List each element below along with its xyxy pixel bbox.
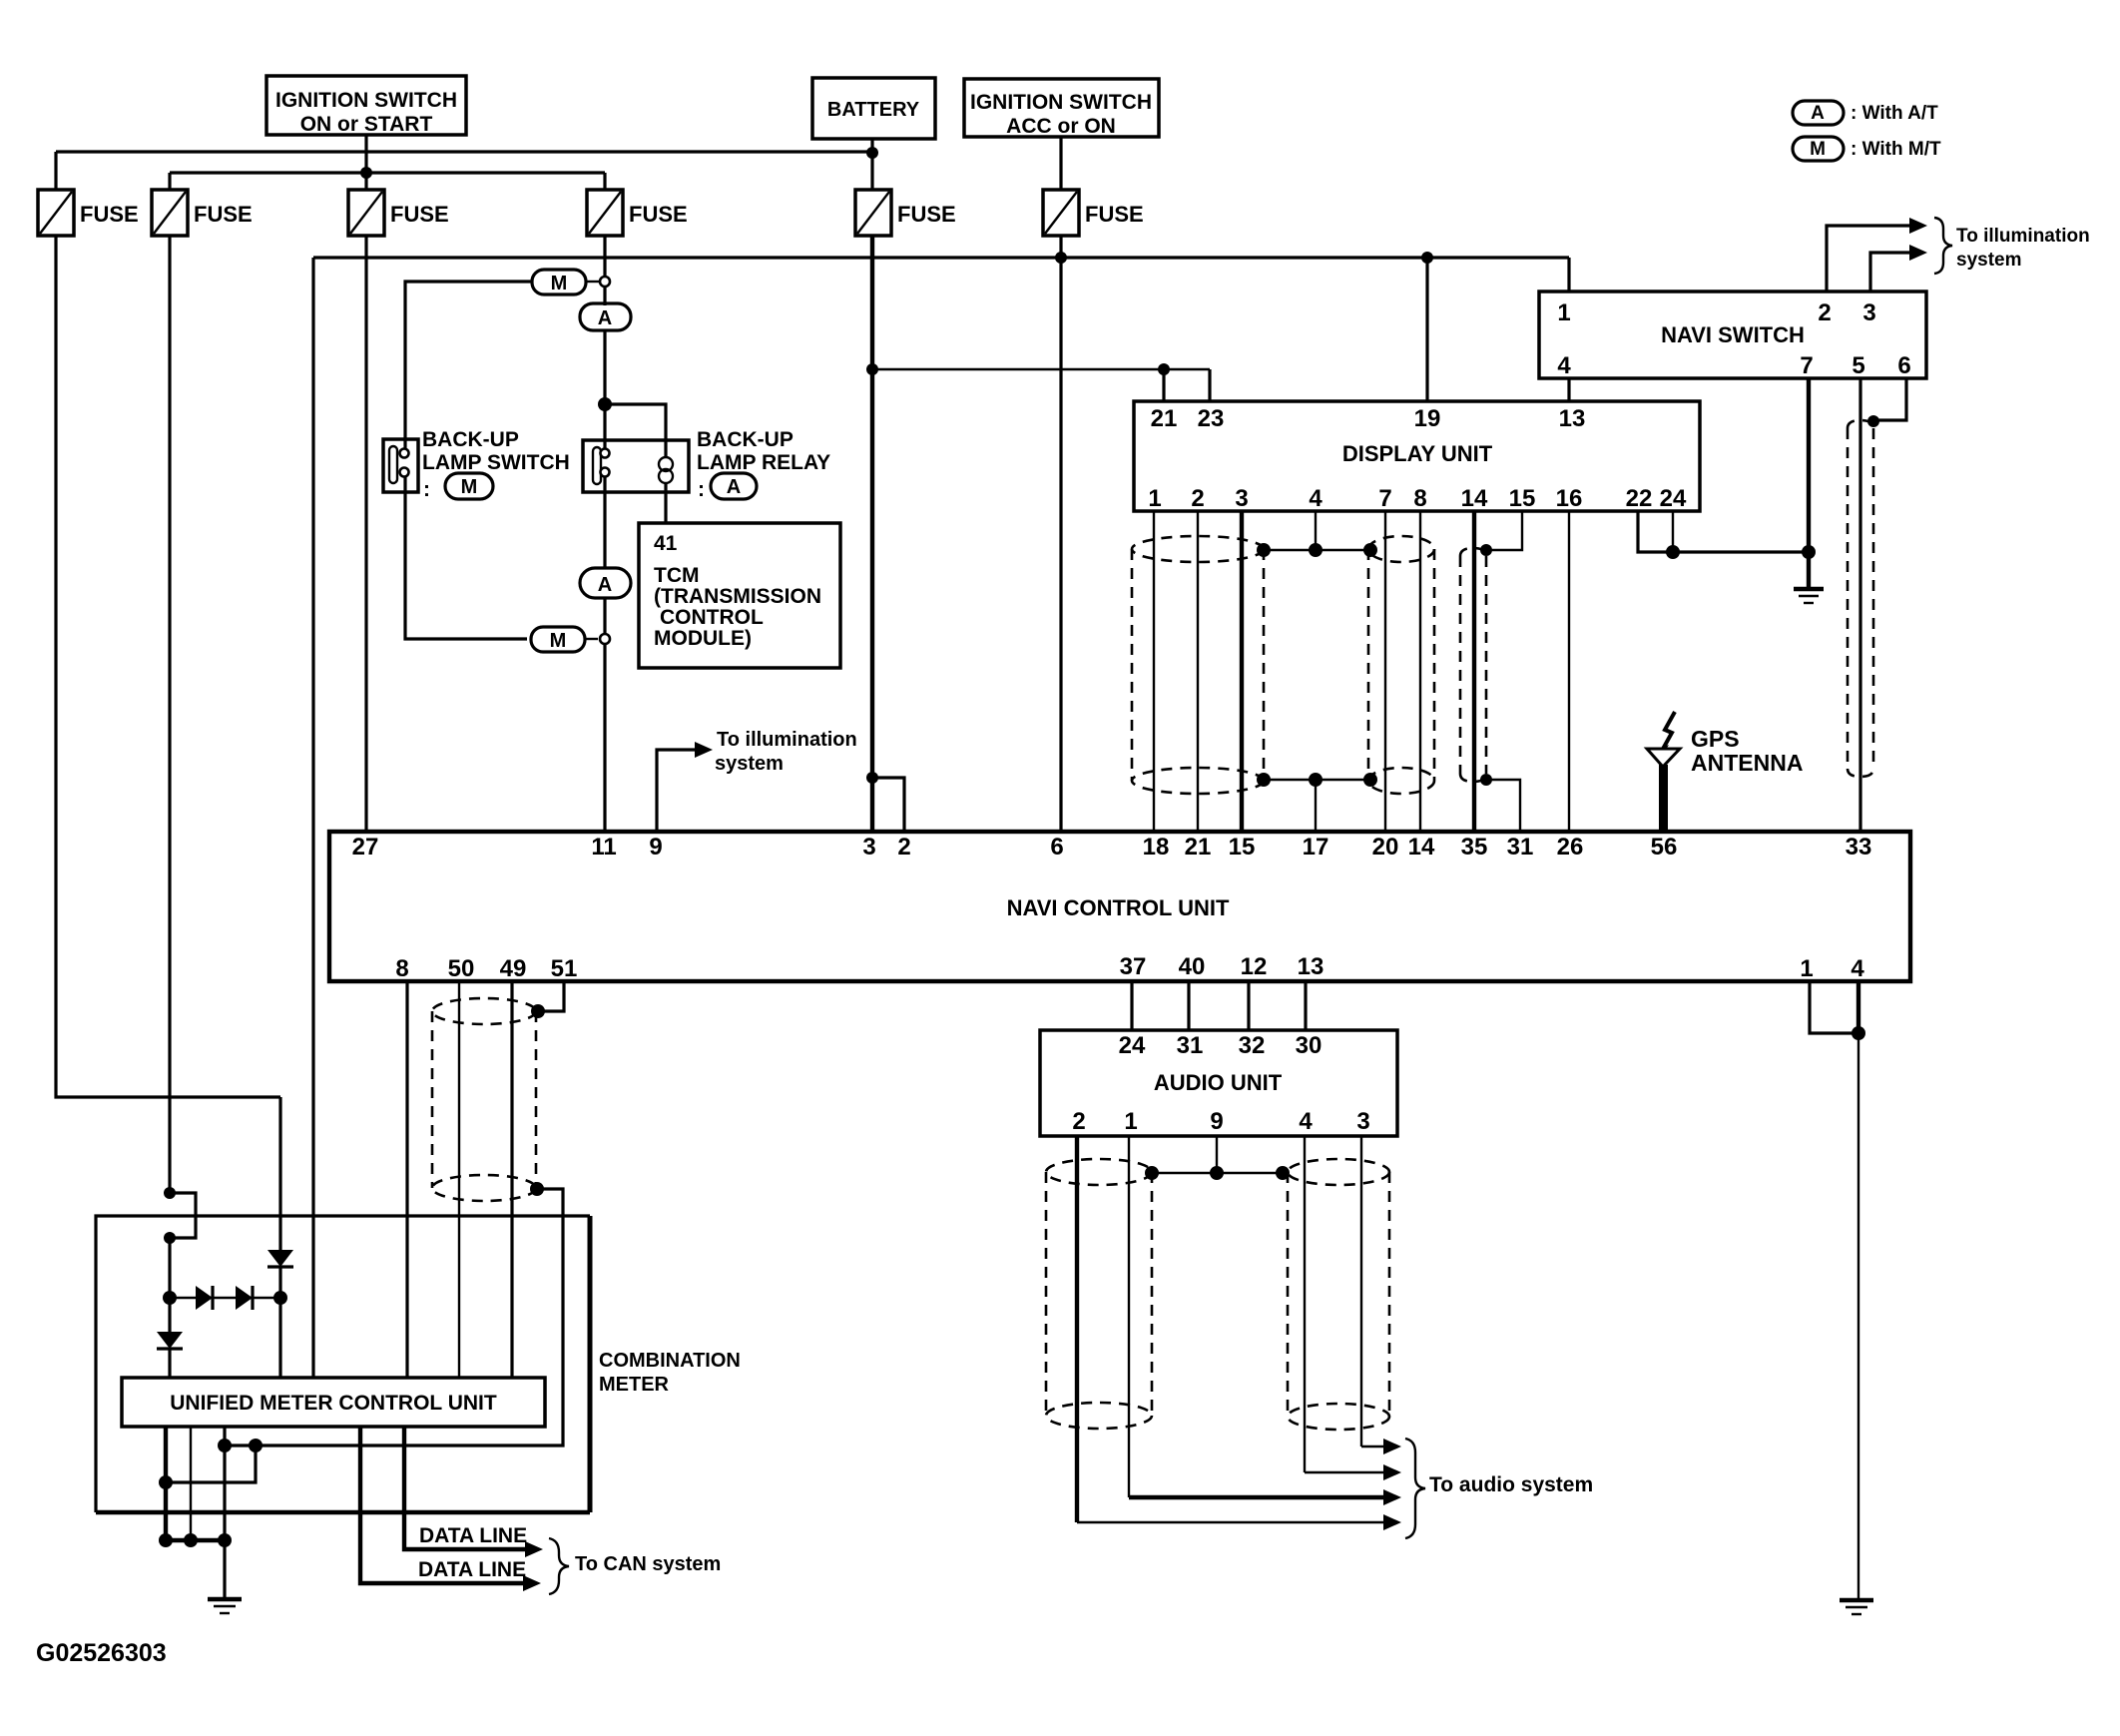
back-up lamp switch [383,439,418,492]
ground symbol bottom left [208,1599,242,1613]
wire: display1 to navi18 [1153,511,1155,831]
wire: x=170 diode to unified box [168,1349,171,1378]
brace to illumination [1934,218,1952,274]
display unit top pin labels 21 23 19 13 [1151,405,1586,432]
wire: ACC fuse6 output down to navi pin 6 [1059,236,1062,831]
svg-text:15: 15 [1229,834,1256,861]
oval tag M (top) [532,270,599,294]
svg-text:27: 27 [352,834,379,861]
svg-text:FUSE: FUSE [390,202,449,227]
svg-text:2: 2 [1191,485,1204,512]
svg-text:49: 49 [500,955,527,982]
wire: display7 to navi20 [1384,511,1386,831]
svg-text:37: 37 [1120,953,1147,980]
shield around navi switch pin5 wire [1848,420,1873,777]
arrow audio3 [1383,1489,1401,1505]
svg-text:system: system [715,753,784,775]
fuse F6 [1043,190,1144,236]
wire: x=281 diode to unified box [278,1267,281,1378]
svg-text:19: 19 [1414,405,1441,432]
wire: display4 to shield drain top [1315,511,1317,550]
junction dot staple bottom [164,1232,176,1244]
wire: accessory bus left drop x=313 [311,258,314,1378]
wire: navi switch pin 3 to illumination [1870,253,1913,291]
svg-text:13: 13 [1298,953,1325,980]
display unit bottom pin labels 1 2 3 4 7 8 14 15 16 22 24 [1148,485,1687,512]
junction dot ignition bus [360,167,372,179]
svg-text:26: 26 [1557,834,1584,861]
label combination meter [599,1350,741,1396]
arrow audio2 [1383,1464,1401,1480]
wire: unified ground pin x=191 [190,1427,192,1540]
svg-text:6: 6 [1050,834,1063,861]
legend A = With A/T [1793,101,1938,125]
svg-text:31: 31 [1177,1032,1204,1059]
fuse F1 [38,190,139,236]
svg-text:40: 40 [1179,953,1206,980]
svg-text:FUSE: FUSE [629,202,688,227]
svg-text:7: 7 [1800,352,1813,379]
svg-text:To illumination: To illumination [717,729,857,751]
wire: fuse6 riser (ACC) [1059,137,1062,190]
oval tag A (top) [580,303,631,330]
svg-text:3: 3 [1235,485,1248,512]
wire: navi51 to shield drain [544,981,564,1011]
svg-text:15: 15 [1509,485,1536,512]
wire: navi switch pin 5 shielded to navi pin 33 [1858,378,1861,831]
wire: display14 to navi35 [1472,511,1476,831]
back-up lamp switch label [422,428,570,501]
wire: staple jog at meter edge [170,1193,196,1238]
wire: fuse5 riser [870,152,873,190]
svg-text:BACK-UP: BACK-UP [422,428,519,451]
wire: display22/24 ground lead [1638,511,1808,552]
wire: unified data line pin x=405 [404,1427,529,1549]
junction dot ground jog [249,1439,263,1452]
arrow to illumination (middle) [695,742,713,758]
wire: unified data line pin x=361 [360,1427,527,1583]
svg-text:NAVI CONTROL UNIT: NAVI CONTROL UNIT [1007,895,1230,920]
wire: display3 to navi15 [1240,511,1244,831]
junction dot relay branch [598,397,612,411]
wire: audio3 to audio system [1361,1446,1387,1447]
wire: switch output down [405,476,527,639]
svg-text:11: 11 [591,834,616,861]
wire: M/T branch from M tag to back-up lamp switch [405,282,532,448]
wire: navi pin 9 to illumination arrow [657,750,699,831]
wire: fuse4 down to relay junction [603,330,606,448]
wire: navi13 to audio30 [1304,981,1307,1030]
wire: drop to display pin 23 [1208,369,1211,401]
svg-text:To audio system: To audio system [1429,1473,1593,1496]
diode chain horizontal wire [170,1297,280,1299]
arrow illumination lower [1909,245,1927,261]
svg-text:2: 2 [897,834,910,861]
arrow illumination upper [1909,218,1927,234]
label to illumination system (top right) [1956,226,2090,271]
TCM box [639,523,840,668]
svg-text:To CAN system: To CAN system [575,1553,721,1575]
svg-text:3: 3 [1862,299,1875,326]
wire: navi switch pin 7 to ground [1807,378,1811,588]
junction dot navi pin2 branch [866,772,878,784]
svg-text:51: 51 [551,955,578,982]
svg-text:1: 1 [1557,299,1570,326]
wire: branch to display pins 21/23 [872,368,1210,370]
svg-text:GPS: GPS [1691,726,1740,752]
svg-text:4: 4 [1299,1108,1313,1135]
wire: ignition ON feed bus y=173 [170,171,605,174]
wire: accessory bus y=258 [313,256,1569,259]
svg-text:DISPLAY UNIT: DISPLAY UNIT [1342,441,1493,466]
wire: navi switch pin 6 to shield [1878,378,1906,420]
svg-text:21: 21 [1151,405,1178,432]
svg-text:5: 5 [1852,352,1864,379]
svg-text:: With A/T: : With A/T [1851,103,1938,124]
svg-text:LAMP SWITCH: LAMP SWITCH [422,451,570,474]
svg-text:FUSE: FUSE [80,202,139,227]
wire: fuse2 output drop [168,236,171,1193]
svg-text:6: 6 [1897,352,1910,379]
arrow audio4 [1383,1514,1401,1530]
wire: navi4 to ground (right) [1856,981,1860,1033]
junction dot display feed [866,363,878,375]
svg-text:3: 3 [862,834,875,861]
wire: battery feed bus y=152 [56,150,872,153]
wire: navi switch pin 2 to illumination [1827,226,1913,291]
svg-text:24: 24 [1660,485,1687,512]
svg-text:DATA LINE: DATA LINE [419,1524,527,1547]
svg-text:To illumination: To illumination [1956,226,2090,247]
junction dot display24 [1666,545,1680,559]
svg-text:23: 23 [1198,405,1225,432]
wire: fuse4 between M terminal and A tag [603,287,606,305]
svg-text:56: 56 [1651,834,1678,861]
shield2 around display wires 7-8 [1368,536,1434,794]
svg-text:12: 12 [1241,953,1268,980]
svg-text:4: 4 [1557,352,1571,379]
svg-text:4: 4 [1851,955,1864,982]
svg-text:4: 4 [1309,485,1323,512]
ignition switch ACC/ON box [964,79,1159,138]
shield6 around audio 4/3 wires [1288,1159,1389,1430]
svg-text:14: 14 [1408,834,1435,861]
svg-text:ANTENNA: ANTENNA [1691,750,1803,776]
svg-text:: With M/T: : With M/T [1851,139,1941,160]
arrow data line 2 [523,1575,541,1591]
wire: navi37 to audio24 [1130,981,1133,1030]
svg-text:A: A [598,307,612,329]
wire: fuse4 output upper [603,236,606,277]
navi control bottom pin labels 8 50 49 51 37 40 12 13 1 4 [395,953,1864,982]
junction dot shield0 bottom [530,1182,544,1196]
svg-text:NAVI SWITCH: NAVI SWITCH [1661,322,1805,347]
svg-text:3: 3 [1356,1108,1369,1135]
svg-text:20: 20 [1372,834,1399,861]
svg-text:METER: METER [599,1374,670,1396]
svg-text:AUDIO UNIT: AUDIO UNIT [1154,1070,1283,1095]
svg-text:M: M [1810,139,1826,160]
diode D3 (right) [196,1286,213,1310]
junction dot ground jog left [159,1475,173,1489]
wire: audio1 to audio system [1129,1495,1387,1499]
navi control top pin labels 27 11 9 3 2 6 18 21 15 17 20 14 35 31 26 56 33 [352,834,1872,861]
svg-text:1: 1 [1148,485,1161,512]
svg-text:9: 9 [1210,1108,1223,1135]
svg-text:1: 1 [1124,1108,1137,1135]
svg-text:31: 31 [1507,834,1534,861]
wire: fuse3 riser [364,173,367,190]
wire: shield0 drain to meter ground [225,1189,563,1446]
junction dot shield4 top [1867,415,1879,427]
wire: relay coil to TCM pin 41 [664,483,667,523]
svg-text:1: 1 [1800,955,1813,982]
wire: unified ground pin x=166 [164,1427,168,1540]
fuse F2 [152,190,253,236]
junction dots drain bottom [1257,773,1271,787]
unified meter control unit box [122,1378,545,1427]
wire: accessory bus to navi switch pin 1 [1567,258,1570,291]
M/T connector open terminal [600,277,610,287]
label GPS ANTENNA [1691,726,1803,776]
wire: navi switch pin 4 to display pin 13 [1567,378,1570,401]
wire: shield drain bottom link [1264,779,1368,781]
navi control unit box [329,832,1910,981]
svg-text:9: 9 [649,834,662,861]
wire: display16 to navi26 [1568,511,1570,831]
svg-text:2: 2 [1072,1108,1085,1135]
fuse F3 [348,190,449,236]
wire: audio1 down [1128,1136,1130,1497]
wire: fuse1 riser [54,152,57,190]
wire: fuse3 output to navi pin 27 [364,236,367,831]
junction dot ACC on accessory bus [1055,252,1067,264]
shield3 around display wire 14 [1460,548,1486,782]
svg-text:ON or START: ON or START [300,113,433,136]
svg-text:2: 2 [1818,299,1831,326]
arrow audio1 [1383,1439,1401,1454]
svg-text::: : [423,478,430,501]
arrow data line 1 [525,1541,543,1557]
wire: ground bus y=1543 [166,1538,225,1542]
wire: audio3 down [1360,1136,1362,1447]
wire: down right side to ground [1857,1033,1859,1598]
junction dot fuse2/staple top [164,1187,176,1199]
svg-text:M: M [550,630,567,652]
junction dots audio drain [1145,1166,1159,1180]
svg-text:M: M [461,476,478,498]
wire: fuse2 riser [168,173,171,190]
wire: audio9 to shield drains [1216,1136,1218,1173]
svg-text:UNIFIED METER CONTROL UNIT: UNIFIED METER CONTROL UNIT [170,1392,497,1415]
wire: navi50 to unified meter [458,981,460,1378]
svg-text:M: M [551,273,568,294]
wire: shield3 bottom to navi31 [1486,780,1520,831]
svg-text:FUSE: FUSE [194,202,253,227]
wire: display8 to navi14 [1419,511,1421,831]
ignition switch ON/START box [266,76,466,136]
junction dot navi1/4 [1852,1026,1865,1040]
svg-text:MODULE): MODULE) [654,627,752,650]
wire: fuse4 riser [603,173,606,190]
junction dot accessory bus display19 [1421,252,1433,264]
audio unit top pin labels 24 31 32 30 [1119,1032,1323,1059]
svg-text:FUSE: FUSE [1085,202,1144,227]
wire: shield drain top link [1264,549,1368,551]
wire: audio shield drain link [1152,1172,1283,1174]
wire: fuse2 drop below staple [168,1238,171,1332]
navi switch box [1539,291,1926,378]
svg-text:system: system [1956,250,2022,271]
wire: navi49 to unified meter [510,981,513,1378]
junction dot battery bus [866,147,878,159]
wire: audio4 to audio system [1305,1471,1387,1473]
svg-text:TCM: TCM [654,564,700,587]
shield1 around display wires 1-3 [1132,536,1264,794]
svg-text:IGNITION SWITCH: IGNITION SWITCH [275,89,457,112]
wire: navi8 to unified meter [405,981,408,1378]
svg-text:13: 13 [1559,405,1586,432]
svg-text:14: 14 [1461,485,1488,512]
GPS antenna [1647,712,1680,831]
junction dot shield ground [1802,545,1816,559]
battery box [812,78,935,139]
wire: drop to display pin 19 [1425,258,1428,401]
oval tag M (lower) [531,627,598,652]
wire: display2 to navi21 [1197,511,1199,831]
junction dot ground link top [218,1439,232,1452]
junction dot shield0 top [531,1004,545,1018]
wire: fuse1 output long left drop [56,236,280,1097]
combination meter box [96,1216,590,1512]
ground symbol below navi switch pin 7 [1794,589,1824,603]
svg-text:8: 8 [395,955,408,982]
M/T lower open terminal [600,634,610,644]
oval tag A (lower) [580,568,631,598]
junction dot x=281 diode chain [273,1291,287,1305]
junction dot display 21 branch [1158,363,1170,375]
svg-text:24: 24 [1119,1032,1146,1059]
legend M = With M/T [1793,137,1941,161]
svg-text:16: 16 [1556,485,1583,512]
wire: navi1 jog [1810,981,1854,1033]
svg-text:30: 30 [1296,1032,1323,1059]
svg-text::: : [698,478,705,501]
wire: audio2 to audio system [1077,1521,1387,1523]
svg-text:G02526303: G02526303 [36,1639,167,1667]
svg-text:21: 21 [1185,834,1212,861]
wire: between lower A tag and lower M terminal [603,598,606,634]
svg-text:IGNITION SWITCH: IGNITION SWITCH [970,91,1152,114]
wire: navi40 to audio31 [1187,981,1190,1030]
svg-text:41: 41 [654,532,678,555]
wire: battery fuse5 output down to navi pin 3 [870,236,874,831]
junction dots ground bus [159,1533,173,1547]
svg-text:FUSE: FUSE [897,202,956,227]
diode D2 (down) on x=170 [157,1332,183,1349]
wire: navi12 to audio32 [1247,981,1250,1030]
wire: jog to navi pin 2 [872,778,904,831]
svg-text:17: 17 [1303,834,1329,861]
ground symbol bottom right [1840,1600,1873,1614]
junction dots shield3 [1480,544,1492,556]
svg-text:35: 35 [1461,834,1488,861]
wire: shield drain to navi17 [1315,780,1317,831]
wire: audio4 down [1304,1136,1306,1472]
svg-text:COMBINATION: COMBINATION [599,1350,741,1372]
svg-text:33: 33 [1846,834,1872,861]
back-up lamp relay [583,440,689,492]
svg-text:50: 50 [448,955,475,982]
wire: ignition switch riser [364,135,367,173]
wire: display15 to shield3 top [1490,511,1522,550]
svg-text:A: A [1811,103,1825,124]
brace to audio system [1405,1439,1425,1538]
wire: down to navi pin 11 [603,644,606,831]
wire: audio2 down [1075,1136,1079,1522]
brace to CAN system [549,1538,569,1594]
wire: display24 drop [1672,511,1674,552]
junction dot x=170 diode chain [163,1291,177,1305]
wire: vertical x=281 to combination meter [278,1097,281,1250]
svg-text:7: 7 [1378,485,1391,512]
junction dots drain top [1257,543,1271,557]
wire: drop to display pin 21 [1162,369,1165,401]
wire: unified ground pin x=225 [223,1427,226,1598]
audio unit box [1040,1030,1397,1136]
diode D4 (right) [236,1286,253,1310]
wire: battery riser [870,139,873,152]
svg-text:CONTROL: CONTROL [660,606,764,629]
shield5 around audio 2/1 wires [1046,1159,1152,1429]
svg-text:(TRANSMISSION: (TRANSMISSION [654,585,821,608]
svg-text:ACC or ON: ACC or ON [1006,115,1116,138]
back-up lamp relay label [697,428,830,501]
display unit box [1134,401,1700,511]
svg-text:18: 18 [1143,834,1170,861]
svg-text:32: 32 [1239,1032,1266,1059]
label to illumination system (middle) [715,729,857,775]
svg-text:22: 22 [1626,485,1653,512]
shield0 around navi 50/49 wires [432,998,536,1201]
fuse F5 [855,190,956,236]
svg-text:BATTERY: BATTERY [827,99,920,121]
svg-text:LAMP RELAY: LAMP RELAY [697,451,830,474]
wire: branch to relay coil [605,404,666,457]
svg-text:BACK-UP: BACK-UP [697,428,794,451]
diode D1 (down) on x=281 [267,1250,293,1267]
svg-text:DATA LINE: DATA LINE [418,1558,526,1581]
fuse F4 [587,190,688,236]
svg-text:A: A [727,476,741,498]
wire: relay contact output down [603,476,606,568]
wire: ground jog to x=166 [166,1446,256,1482]
audio unit bottom pin labels 2 1 9 4 3 [1072,1108,1369,1135]
svg-text:8: 8 [1413,485,1426,512]
navi switch pin labels 1 2 3 4 7 5 6 [1557,299,1910,379]
svg-text:A: A [598,574,612,596]
